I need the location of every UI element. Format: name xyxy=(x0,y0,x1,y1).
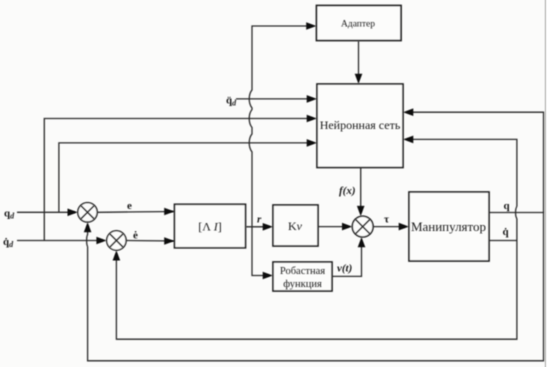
svg-text:v(t): v(t) xyxy=(337,263,352,275)
svg-text:q̇d: q̇d xyxy=(3,236,14,249)
svg-text:[Λ I]: [Λ I] xyxy=(198,220,221,234)
wire e : sum1 to Lambda block xyxy=(97,211,174,214)
arrowhead r into Kv xyxy=(263,223,273,231)
wire r branch vertical up to Adapter (with hops) xyxy=(249,26,312,227)
svg-text:Нейронная сеть: Нейронная сеть xyxy=(320,118,401,132)
wire Kv out to sum3 xyxy=(318,226,349,228)
X cross in sum3 xyxy=(355,219,370,234)
summing junction sum2 xyxy=(107,231,126,250)
svg-text:ė: ė xyxy=(133,230,138,242)
svg-text:Робастная: Робастная xyxy=(280,266,325,277)
arrowhead Kv out into sum3 xyxy=(342,223,352,231)
wire q_d branch up to neural net input 3 xyxy=(59,143,313,212)
wire q̈_d into neural net input 1 xyxy=(236,98,313,100)
svg-text:q̇: q̇ xyxy=(503,226,510,238)
scan artifact right edge xyxy=(544,0,546,367)
svg-text:qd: qd xyxy=(4,208,15,221)
wire q̇ feedback vertical, top to neural net right input 2 xyxy=(408,139,517,206)
arrowhead f(x) into sum3 xyxy=(357,206,365,216)
wire q_d input horizontal xyxy=(17,211,75,213)
arrowhead into NN right 1 xyxy=(403,108,413,116)
svg-text:τ: τ xyxy=(384,214,389,226)
block Manipulator xyxy=(409,192,489,261)
wire r : Lambda block to Kv xyxy=(246,226,269,228)
arrowhead into Adapter xyxy=(306,22,316,30)
svg-text:Kv: Kv xyxy=(288,219,303,233)
svg-text:q̈d: q̈d xyxy=(226,95,237,108)
wire q feedback branch up to neural net right input 1 xyxy=(408,112,544,212)
svg-text:Манипулятор: Манипулятор xyxy=(411,219,486,234)
arrowhead into NN left 2 xyxy=(307,115,317,123)
arrowhead edot into Lambda xyxy=(164,237,174,245)
arrowhead Adapter down into NN xyxy=(355,74,363,84)
arrowhead v(t) into sum3 xyxy=(358,237,366,247)
wire f(x) : neural net down to sum3 xyxy=(360,167,362,212)
wire edot : sum2 to Lambda block xyxy=(126,240,174,243)
arrowhead e into Lambda xyxy=(164,208,174,216)
wire v(t) : robust block to sum3 xyxy=(332,242,362,276)
svg-text:e: e xyxy=(127,200,132,212)
summing junction sum1 xyxy=(78,203,97,222)
block robust function xyxy=(273,262,332,291)
block Neural network xyxy=(317,84,403,168)
X cross in sum2 xyxy=(110,234,124,248)
arrowhead q̇ feedback into sum2 xyxy=(113,250,121,260)
svg-text:Адаптер: Адаптер xyxy=(341,20,375,30)
svg-text:r: r xyxy=(257,214,262,226)
arrowhead q_d into sum1 xyxy=(68,209,78,217)
svg-text:q: q xyxy=(504,200,511,212)
block [Lambda I] xyxy=(175,204,246,248)
wire q feedback : manipulator out right, around bottom, up into sum1 xyxy=(88,213,544,361)
wire r branch vertical down to robust block xyxy=(252,227,269,276)
wire tau : sum3 to manipulator xyxy=(373,226,405,228)
arrowhead into NN left 3 xyxy=(307,139,317,147)
X cross in sum1 xyxy=(81,206,95,220)
arrowhead tau into manipulator xyxy=(399,223,409,231)
arrowhead into NN right 2 xyxy=(403,136,413,144)
svg-text:функция: функция xyxy=(283,279,322,290)
wire q̇_d branch up to neural net input 2 xyxy=(44,119,313,241)
arrowhead r into robust block xyxy=(263,272,273,280)
block Kv xyxy=(273,205,318,246)
summing junction sum3 xyxy=(352,216,373,237)
arrowhead into NN left 1 xyxy=(307,95,317,103)
wire q̇_d input horizontal xyxy=(17,240,103,242)
svg-text:f(x): f(x) xyxy=(339,185,356,197)
wire adapter down to neural net xyxy=(358,41,360,80)
arrowhead q̇_d into sum2 xyxy=(96,237,106,245)
wire q̇ feedback : manipulator out right xyxy=(489,240,517,242)
block Adapter xyxy=(317,6,402,41)
arrowhead q feedback into sum1 xyxy=(84,222,92,232)
